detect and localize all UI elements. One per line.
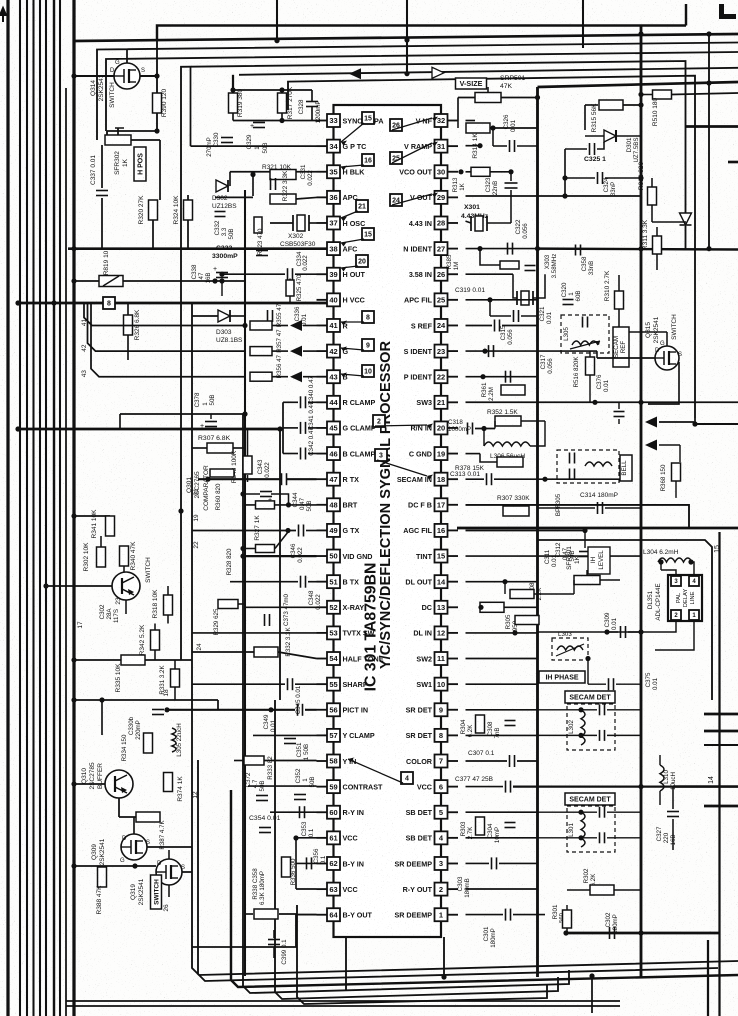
wire Q315 G (666, 332, 668, 346)
pin 9 box (435, 703, 448, 716)
arrow into pin 42 (290, 346, 302, 357)
arrow connector box 24 to pin29 (392, 194, 432, 205)
wire bottom corner 3 thick (231, 790, 738, 987)
resistor R329 (218, 600, 238, 609)
wire SFR302 right (131, 139, 160, 141)
junction y303 bus (15, 300, 20, 305)
junctions pin21 row (592, 400, 597, 405)
wire stub pin 5 (447, 811, 458, 813)
wire R318 (167, 586, 169, 595)
wire pin28 X301 (466, 221, 472, 223)
wire R341 top (74, 515, 110, 517)
junction x407 a (404, 37, 409, 42)
wire 15-line corner x712 (538, 540, 713, 700)
wire stub pin 57 (317, 734, 328, 736)
wire stub pin 39 (317, 273, 328, 275)
wire pin4 row (466, 837, 538, 839)
resistor R374 (164, 773, 173, 792)
wire L302 bottom (538, 734, 598, 736)
resistor R332 (254, 647, 278, 657)
wire stub pin 41 (317, 324, 328, 326)
arrow L303 (556, 644, 584, 656)
pin 29 box (435, 191, 448, 204)
capacitor C329 (253, 122, 265, 124)
wire stub pin 17 (447, 504, 458, 506)
wire R390 down (156, 113, 158, 131)
resistor R323 (254, 217, 262, 233)
wire top band L1 (157, 26, 686, 41)
wire pin21 row long (466, 401, 738, 403)
pin 3 box (435, 857, 448, 870)
arrow connector box 8 to pin41 (341, 321, 364, 323)
wire R338 row (245, 913, 253, 915)
wire pin48 row (245, 504, 317, 506)
pin 19 box (435, 447, 448, 460)
junction Q314 S (154, 73, 159, 78)
wire top band L7 (288, 76, 695, 418)
pin 1 box (435, 908, 448, 921)
resistor R335 (121, 655, 145, 665)
wire SFR302 stub (106, 131, 108, 137)
connector box 9 to pin42 (362, 339, 374, 351)
inductor L302 (581, 710, 585, 745)
boxed label BELL (620, 455, 632, 481)
pin 11 box (435, 652, 448, 665)
capacitor on pin22 (505, 371, 507, 383)
wire C325 (565, 148, 587, 150)
arrow connector box 3 to pin18 (377, 460, 427, 476)
pin 8 box (435, 729, 448, 742)
capacitor C325 (589, 143, 591, 155)
pin 32 box (435, 114, 448, 127)
junction pin27 row (477, 246, 482, 251)
wire R343 down (247, 475, 249, 482)
wire Q319 S (182, 871, 192, 873)
arrow into pin 41 (290, 320, 302, 331)
junction y281 (212, 278, 217, 283)
capacitor y712 (152, 709, 164, 711)
wire y90 upper (233, 89, 312, 91)
wire stub pin 62 (317, 862, 328, 864)
wire bottom corner 1 (192, 303, 738, 975)
pin 45 box (327, 421, 340, 434)
wire C326 row (492, 128, 494, 146)
wire bottom pair 1 (66, 1000, 620, 1002)
wire pin29 row (466, 195, 642, 197)
wire pin52 row (245, 606, 317, 608)
junctions x565 (562, 175, 567, 180)
wire left bus 9 (65, 88, 67, 1016)
wires Q319 D G (168, 850, 170, 859)
pin 14 box (435, 575, 448, 588)
wire stub pin 49 (317, 529, 328, 531)
pin 39 box (327, 268, 340, 281)
resistor R315 (599, 100, 623, 110)
capacitor C340 (300, 396, 302, 408)
wire pin13 row (504, 606, 538, 608)
capacitor C323 (505, 182, 518, 184)
boxed label H POS (134, 147, 146, 181)
junction y933 b (638, 930, 643, 935)
junction y429 right (277, 426, 282, 431)
wire pin38 row (245, 248, 317, 250)
wire C312 drop (584, 531, 586, 549)
connector box 2 to pin20 (373, 415, 385, 427)
wire R516 (589, 351, 591, 357)
resistor R341 (106, 516, 115, 536)
boxed label SECAM DET 1 (565, 691, 615, 703)
wire (272, 325, 288, 327)
junction y90 a (230, 87, 235, 92)
wire pin15 row (466, 555, 596, 557)
wire R326 (127, 303, 129, 315)
inductor L304 (658, 558, 692, 562)
wire pin11 row (466, 658, 538, 660)
wire thick y786 right (673, 785, 738, 788)
transistor Q315 (655, 346, 679, 370)
junction y429 bus (15, 426, 20, 431)
wire stub pin 4 (447, 837, 458, 839)
arrow connector box to pin58 (348, 759, 403, 783)
resistor R325x (286, 280, 294, 296)
wire below IC x444 (443, 937, 445, 977)
wire L301 bottom (538, 837, 598, 839)
resistor R310 (615, 291, 624, 309)
junction x277 (274, 38, 279, 43)
resistor R388 (98, 867, 107, 887)
capacitor on pin15 (597, 550, 599, 562)
wire stub pin 13 (447, 606, 458, 608)
wire thick stub y806 (704, 805, 738, 808)
wire pin27 row (466, 248, 538, 250)
capacitor C378 (205, 421, 217, 423)
wire stub pin 44 (317, 401, 328, 403)
wires C338 (221, 281, 223, 296)
wire thick y933 (566, 932, 720, 935)
wire pin18 row (466, 478, 485, 480)
wire C324 row (565, 177, 595, 179)
wire pin31 row (466, 145, 481, 147)
junction pin33 row (279, 118, 284, 123)
wire stub pin 30 (447, 171, 458, 173)
wire stub pin 29 (447, 196, 458, 198)
arrow connector box 9 to pin42 (341, 348, 364, 350)
pin 31 box (435, 140, 448, 153)
wire C321 row (489, 300, 491, 316)
wire stub pin 21 (447, 401, 458, 403)
wire stub pin 1 (447, 914, 458, 916)
capacitor C348 (300, 576, 302, 588)
diode arrow down x686 (680, 213, 692, 225)
wire stub pin 3 (447, 862, 458, 864)
resistor R319 (229, 93, 238, 113)
wire pin34 row (191, 145, 317, 147)
capacitor C352 (294, 794, 306, 796)
wire stub pin 7 (447, 760, 458, 762)
wire R343 top (247, 429, 249, 456)
resistor R390 (153, 93, 162, 113)
wire stub x407 top (406, 0, 408, 75)
wire stub pin 61 (317, 837, 328, 839)
wire right vertical x719 (718, 532, 720, 1016)
wire center-right vertical x537 (536, 87, 539, 977)
resistor R302b (97, 547, 106, 567)
transistor Q310 (105, 770, 133, 798)
wire stub pin 51 (317, 581, 328, 583)
wire left bus 8 (59, 0, 61, 1016)
wire pin23 row (466, 350, 598, 352)
wire C314 row (538, 507, 596, 509)
pin 12 box (435, 626, 448, 639)
wire C399 (273, 930, 275, 938)
wire Q315 S down (648, 362, 679, 404)
wire bottom corner 5 (275, 700, 558, 999)
wire stub pin 9 (447, 709, 458, 711)
wire stub pin 52 (317, 606, 328, 608)
pin 21 box (435, 396, 448, 409)
pin 30 box (435, 165, 448, 178)
wire C328 (311, 90, 313, 101)
wire stub pin 16 (447, 529, 458, 531)
wire Q310 base (74, 783, 105, 785)
wire stub pin 23 (447, 350, 458, 352)
wire stub pin 42 (317, 350, 328, 352)
junction x245 y414 (242, 411, 247, 416)
resistor R304 (476, 715, 485, 733)
junction y249 bus (71, 246, 76, 251)
pin 46 box (327, 447, 340, 460)
connector box 25 to pin31 (390, 152, 402, 164)
wire pin60 row (270, 811, 317, 813)
junction pin6 row (638, 784, 643, 789)
resistor R328 (256, 545, 275, 553)
capacitor C372 (256, 795, 268, 797)
wire stub pin 26 (447, 273, 458, 275)
capacitor C342 (300, 448, 302, 460)
zener D302 (216, 180, 228, 192)
connector box 15b to pin38 (362, 228, 374, 240)
pin 10 box (435, 678, 448, 691)
DL351 pins (671, 576, 681, 586)
arrow top left (0, 8, 6, 22)
capacitor C346 (298, 525, 300, 537)
pin 64 box (327, 908, 340, 921)
wire stub pin 22 (447, 376, 458, 378)
connector box 24 to pin29 (390, 194, 402, 206)
junctions L304 (658, 559, 663, 564)
wire stub pin 55 (317, 683, 328, 685)
pin 40 box (327, 293, 340, 306)
wire C344 to pin48 (271, 494, 289, 505)
pin 7 box (435, 755, 448, 768)
pin 60 box (327, 806, 340, 819)
wire pin7 row (466, 760, 508, 762)
pin 16 box (435, 524, 448, 537)
wire right vertical x708 bottom (707, 940, 709, 1016)
connector box 16 to pin35 (362, 154, 374, 166)
dashed box L301 (567, 806, 615, 852)
junction y303 b (51, 300, 56, 305)
transistor Q302 (112, 572, 140, 600)
wire row 42 left (88, 303, 246, 351)
wire pin53 row (192, 632, 317, 634)
resistor R331 (171, 669, 180, 687)
wire stub x686 top (685, 4, 687, 26)
boxed label IH PHASE (539, 671, 585, 683)
wire down to R320 (159, 140, 161, 200)
wire Q314 S to node (140, 75, 157, 77)
junction R321 left (250, 172, 255, 177)
resistor on pin12 (515, 616, 539, 625)
wire stub pin 31 (447, 145, 458, 147)
wire top band L2 (74, 34, 738, 41)
crystal X303 (521, 291, 529, 305)
wire pin37 row (270, 222, 293, 224)
wire stub pin 6 (447, 786, 458, 788)
wire R328 left (240, 546, 245, 551)
wire stub pin 63 (317, 888, 328, 890)
wire R315 row (585, 104, 598, 106)
wire R301 (566, 905, 568, 910)
wire pin59 row (248, 785, 317, 787)
wire stub pin 33 (317, 120, 328, 122)
wire (283, 453, 298, 455)
wire pin61 row (296, 837, 317, 839)
junction R510 (638, 92, 643, 97)
pin 5 box (435, 806, 448, 819)
resistor R368 (672, 463, 681, 481)
wire pin33 row (233, 120, 317, 122)
wire pin51 row (230, 581, 298, 583)
wire stub pin 56 (317, 709, 328, 711)
wire Q309 S right (147, 846, 192, 848)
pin 36 box (327, 191, 340, 204)
wire R342 (154, 624, 156, 631)
resistor R324 (184, 200, 193, 220)
connector box 10 to pin43 (362, 365, 374, 377)
wire left bus 10 (72, 0, 75, 1016)
wire thick y429 (18, 428, 283, 431)
junction x245 y321 (242, 323, 247, 328)
wire pin64 row (192, 915, 317, 947)
capacitor C336 (267, 310, 269, 322)
pin 15 box (435, 550, 448, 563)
arrow connector box 15 to pin34 (341, 123, 364, 142)
wire stub x583 top (582, 0, 584, 48)
wire x695 tail (694, 418, 696, 424)
wire thick y249 right (538, 247, 738, 250)
capacitor C303 (491, 857, 493, 869)
wire y866 (74, 865, 156, 867)
wire stub pin 48 (317, 504, 328, 506)
capacitor C349 (297, 704, 299, 716)
arrow into pin 43 (290, 371, 302, 382)
wire pin25 row (466, 299, 538, 301)
wire pin30 stub (466, 171, 472, 173)
wire stub pin 32 (447, 120, 458, 122)
junction bottom x592 (589, 973, 594, 978)
pin 18 box (435, 473, 448, 486)
wire x565 vertical (564, 149, 566, 196)
resistor R313 (471, 167, 490, 176)
connector box to pin58 (401, 772, 413, 784)
wire to pin36 (296, 197, 317, 199)
capacitor C314 (597, 502, 599, 514)
resistor R336 (282, 857, 291, 877)
wire (272, 350, 288, 352)
wire top band L3 (97, 43, 738, 141)
resistor R303 (476, 817, 485, 835)
capacitor C338 (216, 272, 228, 274)
wire D303 (192, 315, 218, 317)
inductor L303 (557, 646, 583, 650)
capacitor C307 (509, 755, 511, 767)
wires arrows (659, 421, 694, 423)
wire thick stub y714 (704, 713, 738, 716)
pin 37 box (327, 216, 340, 229)
pin 58 box (327, 755, 340, 768)
junction pin20 (481, 426, 486, 431)
arrow connector box 26 to pin32 (392, 118, 432, 130)
pin 20 box (435, 421, 448, 434)
wire pin36 row left (215, 196, 253, 198)
wire Q314 gate up (126, 49, 128, 63)
wire R324 (187, 195, 189, 200)
wire stub pin 46 (317, 453, 328, 455)
wire stub pin 64 (317, 914, 328, 916)
pin 27 box (435, 242, 448, 255)
wire (303, 350, 317, 352)
wire Q302 base (46, 585, 112, 587)
wire vertical x280 (279, 429, 281, 700)
connector box 8 to pin41 (362, 311, 374, 323)
capacitor C375 (608, 678, 610, 690)
transistor Q314 (114, 63, 140, 89)
boxed label SECAM DET 2 (565, 793, 615, 805)
capacitor C399 (268, 939, 280, 941)
resistor R301 (563, 910, 572, 928)
capacitor C302 (609, 927, 611, 939)
capacitor C341 (300, 422, 302, 434)
wire stub pin 37 (317, 222, 328, 224)
arrow connector box 15b to pin38 (341, 239, 364, 243)
wire stub pin 60 (317, 811, 328, 813)
connector box 26 to pin32 (390, 119, 402, 131)
wire pin55 row (192, 683, 285, 685)
pin 48 box (327, 498, 340, 511)
pin 25 box (435, 293, 448, 306)
junction pin47 row (205, 477, 210, 482)
arrow connector box 2 to pin20 (375, 425, 427, 426)
pin 4 box (435, 831, 448, 844)
connector box 21 to pin37 (356, 200, 368, 212)
wire pin63 row (296, 888, 317, 890)
wire pin57 row (253, 734, 317, 736)
wire R331 (174, 660, 176, 669)
wire stub pin 27 (447, 248, 458, 250)
junction x407 b (404, 71, 409, 76)
connector box 20 to pin39 (356, 255, 368, 267)
pin 56 box (327, 703, 340, 716)
wire stub pin 50 (317, 555, 328, 557)
junction y933 a (563, 930, 568, 935)
wire stub pin 34 (317, 145, 328, 147)
wire stub pin 58 (317, 760, 328, 762)
inductor L305 (572, 341, 598, 345)
wire SFR301 connect (534, 593, 574, 595)
capacitor in SECAM REF (582, 317, 584, 328)
capacitor C301 (505, 909, 507, 921)
